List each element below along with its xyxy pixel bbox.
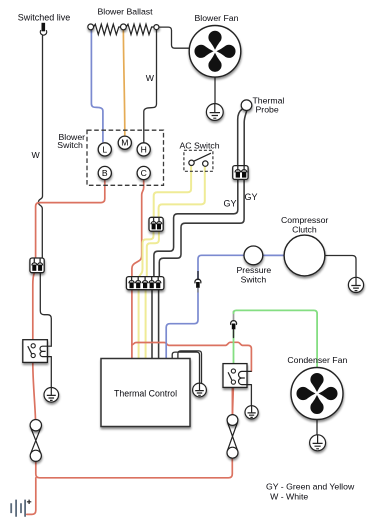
wire black relay R2 coil to ground G5 bbox=[250, 385, 252, 406]
connector X4: thermal control 5-pin connector bbox=[126, 277, 163, 290]
wire stubs inside connector X3 bbox=[238, 166, 244, 171]
svg-text:Switch: Switch bbox=[57, 140, 83, 150]
svg-text:Thermal Control: Thermal Control bbox=[114, 388, 177, 398]
wire dark stub above blue bullet connector bbox=[197, 271, 199, 280]
svg-text:Switched live: Switched live bbox=[18, 12, 71, 22]
wire black ballast right terminal to blower fan bbox=[159, 27, 191, 48]
switch: pressure switch bbox=[244, 246, 263, 265]
wire red from C terminal down to 5-pin connector bbox=[132, 180, 144, 276]
svg-text:L: L bbox=[102, 144, 107, 154]
label: battery plus bbox=[27, 500, 31, 504]
fuse F1: two circles with crossed lines bbox=[30, 420, 41, 462]
ground G1: blower fan bbox=[206, 104, 223, 121]
wire black relay R1 coil to ground bbox=[50, 357, 52, 388]
wire red relay R2 internal stub and down to fuse F2 bbox=[232, 385, 235, 415]
motor: blower fan M1 bbox=[189, 26, 241, 78]
wire blue pressure switch to compressor clutch bbox=[263, 254, 284, 256]
wire blue thermal control up to bullet connector bbox=[166, 289, 198, 359]
wire red fuse F2 up to relay R2 bbox=[231, 388, 233, 415]
connector X3: thermal probe 2-pin connector bbox=[233, 166, 248, 180]
svg-text:Switch: Switch bbox=[241, 275, 267, 285]
svg-text:Condenser Fan: Condenser Fan bbox=[287, 355, 347, 365]
wire gray stub above green bullet connector bbox=[233, 312, 235, 321]
switch box: blower switch (dashed) bbox=[87, 130, 164, 185]
wire black connector X1 down, jog right, to relay R1 coil bbox=[40, 273, 51, 346]
wire red below 5-pin connector into thermal control bbox=[131, 290, 133, 359]
terminal L of blower switch bbox=[98, 143, 111, 156]
wire blue bullet connector up and right to pressure switch bbox=[198, 255, 244, 279]
wire red rail down to battery positive bbox=[27, 478, 36, 515]
wire black thermal control hook 1 to ground G4 bbox=[172, 352, 199, 383]
svg-text:Pressure: Pressure bbox=[237, 265, 272, 275]
svg-text:Clutch: Clutch bbox=[292, 224, 317, 234]
connector X2: AC switch 2-pin connector bbox=[149, 217, 163, 231]
relay R2: box with contacts and coil bbox=[223, 364, 252, 388]
wire black 5-pin connector pin4 down into thermal control bbox=[151, 290, 153, 359]
wire yellow connector X2 pin2 down to 5-pin connector pin3 bbox=[147, 231, 159, 276]
wire yellow connector X2 pin1 down to 5-pin connector pin2 bbox=[139, 231, 153, 276]
wire green relay R2 up to bullet connector bbox=[233, 331, 235, 364]
wire black stub below green bullet connector bbox=[233, 329, 235, 338]
svg-text:H: H bbox=[141, 144, 147, 154]
wire gray stub below blue bullet connector bbox=[197, 288, 199, 293]
wire red relay R1 internal stubs bbox=[32, 340, 34, 363]
motor: compressor clutch bbox=[284, 235, 325, 276]
terminal H of blower switch bbox=[137, 143, 150, 156]
wire stubs inside connector X1 bbox=[34, 258, 40, 263]
switch SW1: AC switch contacts and lever bbox=[189, 153, 211, 166]
switch box: AC switch (dashed) bbox=[184, 150, 213, 171]
wire stubs inside connector X2 bbox=[154, 218, 159, 223]
svg-text:Blower Fan: Blower Fan bbox=[195, 13, 239, 23]
motor: condenser fan M2 bbox=[291, 368, 343, 420]
wire yellow 5-pin connector pin2 down into thermal control bbox=[138, 290, 140, 359]
wire blue ballast L-tap down to L terminal bbox=[91, 30, 103, 142]
svg-text:M: M bbox=[121, 138, 128, 148]
wire yellow AC switch left contact to connector X2 bbox=[154, 166, 191, 217]
terminal M of blower switch bbox=[118, 136, 131, 149]
svg-text:GY - Green and Yellow: GY - Green and Yellow bbox=[266, 481, 355, 491]
thermistor: thermal probe bbox=[241, 100, 252, 111]
connector X1: left 2-pin connector bbox=[30, 258, 44, 273]
thermal control unit: box bbox=[101, 359, 190, 427]
wire green from corner right and down to condenser fan bbox=[234, 310, 318, 367]
fuse F2: two circles with crossed lines bbox=[227, 415, 238, 459]
wire black 5-pin connector pin5 down into thermal control bbox=[158, 290, 160, 359]
wire GY connector X3 pin1 down-left to 5-pin connector pin4 bbox=[154, 180, 238, 277]
ground G2: compressor clutch bbox=[348, 277, 363, 292]
wire black condenser fan to ground G6 bbox=[316, 420, 318, 435]
svg-text:W: W bbox=[146, 73, 155, 83]
wire GY connector X3 pin2 down-left to 5-pin connector pin5 bbox=[159, 180, 244, 277]
svg-text:Compressor: Compressor bbox=[281, 215, 328, 225]
wire red fuse F1 to bottom rail, rail to fuse F2, and battery drop bbox=[36, 458, 233, 478]
terminal C of blower switch bbox=[137, 166, 150, 179]
wire yellow 5-pin connector pin3 down into thermal control bbox=[145, 290, 147, 359]
wire GY thermal probe lead 2 (right) bbox=[244, 110, 247, 165]
svg-text:Probe: Probe bbox=[256, 105, 279, 115]
wire red below connector X1 into relay R1 bbox=[33, 273, 35, 340]
bullet connector: switched live feed bbox=[40, 23, 46, 35]
wire black compressor clutch to ground G2 bbox=[325, 256, 356, 278]
wire black thermal control hook 2 to ground G4 bbox=[178, 351, 202, 384]
bullet connector: blue wire inline connector bbox=[195, 279, 201, 288]
wire W from switched live connector down to connector X1 (with hop jog) bbox=[38, 36, 42, 258]
svg-text:C: C bbox=[141, 168, 147, 178]
wire blower fan to ground bbox=[214, 77, 216, 104]
wire orange ballast mid-tap down to M terminal bbox=[123, 30, 124, 136]
svg-text:W - White: W - White bbox=[270, 491, 308, 501]
ground G3: relay R1 coil bbox=[44, 388, 59, 403]
ground G4: thermal control bbox=[193, 383, 207, 397]
wire red relay R1 down to fuse F1 bbox=[33, 363, 36, 420]
bullet connector: green wire inline connector bbox=[231, 321, 237, 330]
svg-text:GY: GY bbox=[224, 199, 237, 209]
wire GY thermal probe lead 1 (left) bbox=[238, 109, 243, 165]
svg-text:GY: GY bbox=[245, 192, 258, 202]
resistor: blower ballast element bbox=[94, 24, 154, 34]
terminal B of blower switch bbox=[98, 166, 111, 179]
relay R1: box with contacts and coil bbox=[23, 340, 52, 363]
wire green relay R2 internal stub bbox=[232, 364, 234, 369]
ground G6: condenser fan bbox=[310, 435, 326, 451]
wire red from B terminal left and down to connector X1 bbox=[36, 180, 105, 258]
svg-text:B: B bbox=[102, 168, 108, 178]
ground G5: relay R2 coil bbox=[245, 406, 258, 419]
battery: supply bars and plus sign bbox=[11, 500, 25, 517]
wire red branch to relay R2 coil (with hops over yellow, black, blue, green wires) bbox=[132, 342, 252, 371]
svg-text:AC Switch: AC Switch bbox=[180, 141, 220, 151]
terminal: ballast right bbox=[154, 25, 159, 30]
svg-text:W: W bbox=[32, 150, 41, 160]
terminal: ballast left bbox=[88, 24, 94, 30]
wire yellow AC switch right contact to connector X2 bbox=[159, 167, 205, 217]
wire white/black ballast right to H terminal bbox=[144, 30, 157, 143]
wire stubs inside connector X4 bbox=[132, 277, 159, 282]
svg-text:Blower Ballast: Blower Ballast bbox=[98, 7, 154, 17]
terminal: ballast middle tap bbox=[121, 24, 127, 30]
